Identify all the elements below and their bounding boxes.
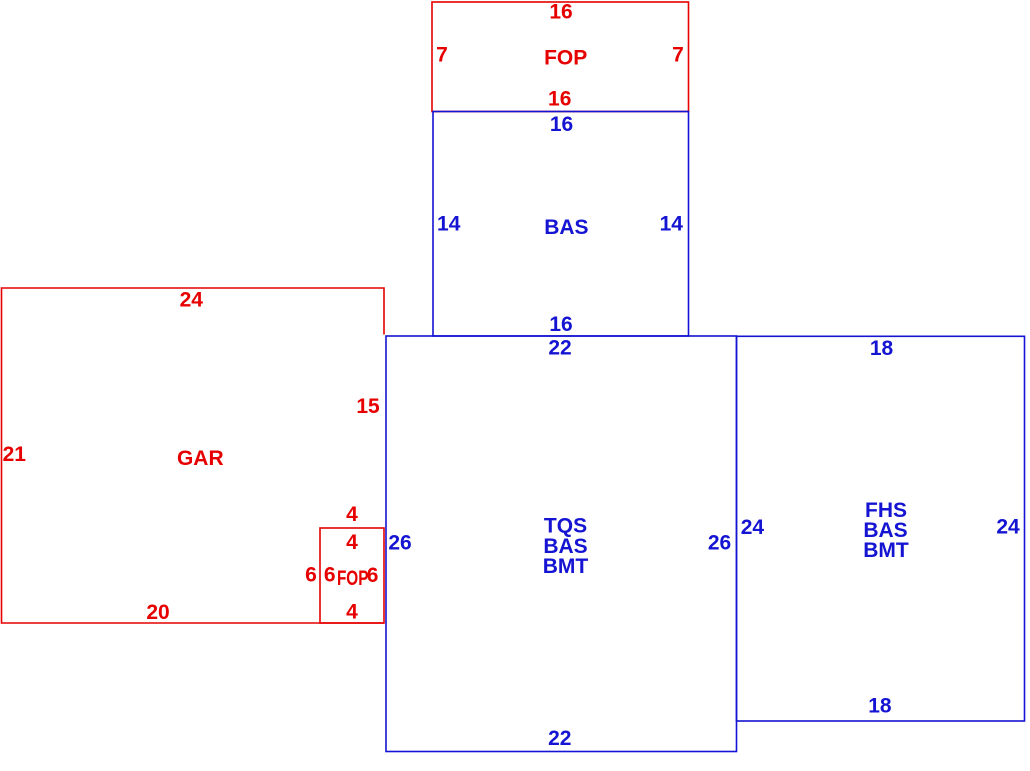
svg-text:4: 4: [346, 601, 358, 624]
svg-text:4: 4: [346, 503, 358, 526]
svg-text:6: 6: [305, 564, 317, 587]
svg-text:21: 21: [3, 443, 27, 466]
svg-text:26: 26: [708, 532, 731, 555]
svg-text:24: 24: [180, 289, 204, 312]
svg-text:20: 20: [146, 601, 169, 624]
svg-text:22: 22: [548, 337, 571, 360]
svg-text:16: 16: [549, 313, 572, 336]
svg-text:14: 14: [660, 213, 684, 236]
svg-text:BAS: BAS: [544, 216, 588, 239]
svg-text:16: 16: [549, 1, 572, 24]
svg-text:18: 18: [870, 337, 894, 360]
svg-text:7: 7: [672, 44, 684, 67]
svg-text:24: 24: [741, 516, 765, 539]
svg-text:BMT: BMT: [863, 539, 909, 562]
area FOP (small porch in garage corner) outline: [320, 528, 384, 623]
svg-text:26: 26: [388, 532, 411, 555]
svg-text:BMT: BMT: [543, 555, 589, 578]
area TQS/BAS/BMT outline: [386, 336, 737, 752]
svg-text:GAR: GAR: [177, 447, 224, 470]
svg-text:16: 16: [548, 88, 571, 111]
svg-text:FOP: FOP: [544, 47, 587, 70]
svg-text:15: 15: [356, 395, 380, 418]
area FOP (top porch) outline: [432, 2, 689, 112]
svg-text:16: 16: [550, 113, 573, 136]
svg-text:24: 24: [996, 516, 1020, 539]
svg-text:6: 6: [367, 564, 379, 587]
area FHS/BAS/BMT outline: [737, 336, 1025, 721]
svg-text:14: 14: [437, 213, 461, 236]
svg-text:6: 6: [324, 563, 336, 586]
svg-text:22: 22: [548, 727, 571, 750]
svg-text:18: 18: [868, 695, 892, 718]
svg-text:4: 4: [346, 531, 358, 554]
area GAR outline (right side partially hidden): [2, 288, 385, 623]
svg-text:7: 7: [436, 44, 448, 67]
area BAS outline: [433, 112, 689, 337]
svg-text:FOP: FOP: [337, 567, 369, 590]
